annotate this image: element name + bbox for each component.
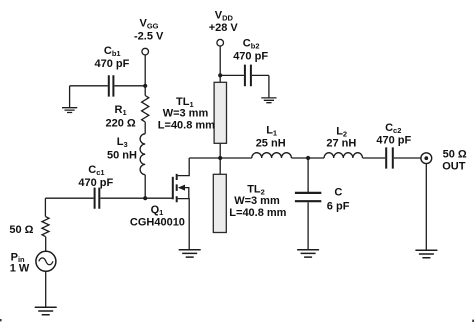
wire input drop to 50ohm resistor: [44, 198, 46, 216]
VDD terminal circle: [217, 39, 224, 46]
capacitor Cb1 470pF plates: [109, 75, 114, 96]
svg-text:Cb2: Cb2: [243, 38, 260, 51]
wire Cb2 drop to ground: [268, 75, 270, 97]
inductor L1 25nH: [252, 153, 292, 158]
wire L1 to C junction: [291, 157, 324, 159]
svg-text:Cc1: Cc1: [88, 164, 104, 177]
wire L3 to gate line: [144, 175, 146, 198]
svg-text:50 nH: 50 nH: [107, 149, 137, 161]
svg-text:Cc2: Cc2: [385, 122, 401, 135]
wire VGG terminal to Cb1/R1 junction: [144, 55, 146, 96]
svg-text:470 pF: 470 pF: [78, 177, 113, 189]
wire C junction down to C cap: [307, 158, 309, 192]
output port circle: [421, 153, 432, 164]
resistor R1 220ohm: [142, 96, 149, 123]
svg-text:27 nH: 27 nH: [326, 138, 356, 150]
svg-text:C: C: [334, 187, 342, 199]
svg-text:50 Ω: 50 Ω: [443, 148, 467, 160]
wire output port to ground: [425, 164, 427, 251]
capacitor C 6pF plates: [295, 193, 321, 201]
wire 50ohm resistor to Pin source: [45, 237, 47, 252]
capacitor Cc1 470pF plates: [95, 188, 100, 209]
ground Q1 source: [179, 250, 201, 257]
wire R1 to L3: [144, 122, 146, 134]
junction node L1/L2/C: [306, 156, 310, 160]
svg-text:R1: R1: [115, 104, 127, 117]
svg-text:50 Ω: 50 Ω: [9, 224, 33, 236]
svg-text:L=40.8 mm: L=40.8 mm: [158, 120, 215, 132]
corner artifact bottom-right: [472, 320, 474, 322]
svg-text:L=40.8 mm: L=40.8 mm: [229, 207, 286, 219]
transistor Q1 CGH40010: [173, 174, 177, 202]
ground Cb2 (small): [261, 98, 276, 103]
Pin source circle: [36, 251, 56, 271]
wire input gate line: [45, 197, 172, 199]
capacitor Cb2 470pF plates: [245, 65, 251, 87]
svg-text:L3: L3: [117, 136, 128, 149]
svg-text:470 pF: 470 pF: [376, 134, 411, 146]
svg-text:25 nH: 25 nH: [256, 138, 286, 150]
wire Cc2 to output port: [394, 157, 421, 159]
ground C 6pF: [297, 250, 319, 257]
inductor L2 27nH: [324, 153, 362, 158]
svg-text:1 W: 1 W: [10, 262, 30, 274]
svg-text:Cb1: Cb1: [104, 45, 121, 58]
svg-text:OUT: OUT: [442, 160, 466, 172]
junction node Cb1/R1: [143, 84, 147, 88]
svg-text:220 Ω: 220 Ω: [106, 117, 136, 129]
wire Pin source to ground: [45, 271, 47, 307]
svg-text:CGH40010: CGH40010: [130, 217, 185, 229]
svg-text:W=3 mm: W=3 mm: [163, 107, 209, 119]
ground output: [415, 250, 437, 257]
wire Cb1 left drop to ground: [69, 86, 71, 108]
svg-text:6 pF: 6 pF: [327, 200, 350, 212]
VGG terminal circle: [142, 48, 149, 55]
ground Pin: [35, 307, 57, 314]
wire junction to L1: [220, 157, 252, 159]
transmission line TL2: [213, 174, 226, 232]
wire drain to junction: [189, 157, 220, 159]
resistor 50ohm input: [42, 217, 49, 237]
svg-text:470 pF: 470 pF: [233, 51, 268, 63]
svg-text:L1: L1: [266, 125, 277, 138]
svg-text:VGG: VGG: [140, 17, 159, 30]
wire TL1 bottom to junction: [219, 143, 221, 174]
transmission line TL1: [214, 82, 226, 143]
ground Cb1 (small): [62, 108, 77, 113]
wire Cb2 horizontal: [220, 74, 269, 76]
inductor L3 50nH: [140, 134, 145, 175]
wire L2 to Cc2: [363, 157, 386, 159]
svg-text:470 pF: 470 pF: [95, 58, 130, 70]
wire C cap to ground: [307, 202, 309, 249]
svg-text:VDD: VDD: [215, 9, 234, 22]
svg-text:Q1: Q1: [151, 204, 164, 217]
svg-text:-2.5 V: -2.5 V: [134, 31, 164, 43]
corner artifact bottom-left: [0, 319, 2, 321]
svg-text:W=3 mm: W=3 mm: [234, 195, 280, 207]
capacitor Cc2 470pF plates: [386, 147, 393, 168]
junction node VDD/Cb2: [218, 73, 222, 77]
junction node drain/TL1/TL2: [218, 156, 222, 160]
wire Cb1 horizontal: [70, 85, 146, 87]
junction node gate/L3: [143, 196, 147, 200]
wire VDD terminal to TL1: [219, 46, 221, 82]
svg-text:+28 V: +28 V: [209, 22, 239, 34]
